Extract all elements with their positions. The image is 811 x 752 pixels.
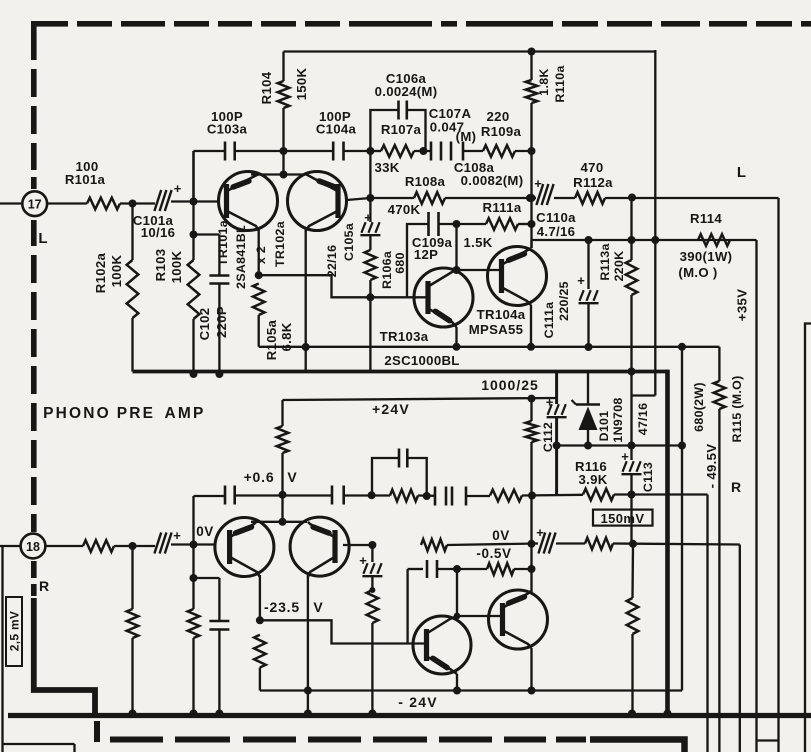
svg-text:2,5 mV: 2,5 mV	[8, 611, 22, 652]
svg-text:R103: R103	[153, 249, 168, 282]
resistor R102b	[127, 609, 139, 638]
junction R110a row198	[528, 194, 536, 202]
junction emitters2	[279, 518, 287, 526]
resistor R114	[698, 234, 730, 246]
svg-text:+: +	[174, 181, 182, 196]
wire output L down	[777, 198, 779, 752]
junction bus Q6	[304, 710, 312, 718]
wire C103a to R104	[235, 150, 284, 152]
junction bus C102b	[215, 710, 223, 718]
junction bus R102b	[129, 710, 137, 718]
junction row151 left	[366, 147, 374, 155]
svg-text:R104: R104	[259, 71, 274, 104]
wire R115 top	[718, 347, 720, 381]
wire C102b bottom	[218, 630, 220, 716]
junction TR102a collector rail	[302, 343, 310, 351]
junction -0.5 col457	[453, 565, 461, 573]
svg-text:TR102a: TR102a	[273, 221, 287, 267]
resistor R112b	[585, 538, 613, 550]
wire R110a bottom	[530, 103, 532, 248]
junction rail347 right	[678, 343, 686, 351]
svg-text:+: +	[534, 176, 542, 191]
wire 0V row a	[447, 544, 538, 546]
capacitor C104a	[332, 142, 335, 161]
svg-text:- 49.5V: - 49.5V	[704, 444, 719, 489]
dashed border left	[31, 21, 37, 60]
wire fb row d	[466, 495, 490, 497]
svg-text:+: +	[577, 273, 585, 288]
svg-text:680(2W): 680(2W)	[692, 382, 706, 432]
svg-text:C112: C112	[541, 422, 555, 452]
svg-text:TR103a: TR103a	[380, 329, 429, 344]
wire 632 down	[631, 544, 634, 598]
wire C102 bottom	[218, 284, 220, 375]
transistor Q5	[215, 518, 274, 577]
wire R101a to C101a	[120, 202, 155, 204]
wire rail347	[259, 346, 682, 348]
wire col457 segment	[456, 569, 458, 616]
wire emitter rail	[251, 173, 307, 175]
capacitor C110a (electrolytic)	[536, 184, 543, 205]
capacitor C102b	[209, 620, 229, 623]
wire R113a bottom	[630, 295, 632, 446]
wire R110b	[530, 399, 532, 421]
svg-text:C103a: C103a	[207, 122, 248, 137]
capacitor C105a (electrolytic)	[360, 234, 380, 236]
wire R102a bottom	[131, 318, 133, 372]
wire +24 corner	[281, 400, 283, 426]
wire R106b bottom	[371, 577, 373, 590]
svg-text:C105a: C105a	[342, 223, 356, 261]
junction bus 632	[628, 710, 636, 718]
junction rail C102	[215, 370, 223, 378]
wire C102 branch	[194, 233, 220, 235]
wire bottom jog	[757, 739, 779, 741]
resistor R109a	[483, 145, 515, 157]
svg-text:150mV: 150mV	[601, 511, 645, 526]
svg-text:680: 680	[393, 252, 407, 274]
junction fb col532	[528, 492, 536, 500]
svg-text:+0.6: +0.6	[244, 469, 275, 485]
wire fb row e	[522, 494, 583, 497]
svg-text:TR104a: TR104a	[477, 307, 526, 322]
svg-text:47/16: 47/16	[636, 403, 650, 436]
junction Q6 collector -24	[304, 687, 312, 695]
junction C111a top	[585, 236, 593, 244]
wire C108a to R109a	[463, 150, 483, 152]
wire R108a to C110a	[445, 197, 536, 199]
wire R115 down -49.5V	[718, 409, 720, 752]
junction emitter rail	[280, 171, 288, 179]
svg-text:390(1W): 390(1W)	[680, 249, 733, 264]
svg-text:- 24V: - 24V	[398, 694, 437, 710]
capacitor C fb2	[331, 486, 334, 505]
svg-text:R115 (M.O): R115 (M.O)	[730, 375, 744, 442]
wire R104 top	[282, 52, 284, 82]
svg-text:0.0082(M): 0.0082(M)	[461, 173, 524, 188]
wire R107a to C107A	[414, 150, 431, 152]
label 2.5mV box	[6, 597, 22, 666]
wire TR104a collector	[530, 305, 532, 347]
junction bus col372	[368, 710, 376, 718]
svg-text:150K: 150K	[294, 67, 309, 100]
svg-text:L: L	[737, 164, 746, 181]
junction TR103a collector top	[453, 220, 461, 228]
svg-text:D101: D101	[597, 411, 611, 442]
node 18 input R	[21, 534, 46, 559]
junction TR104a base node	[453, 266, 461, 274]
junction R108a row left	[366, 194, 374, 202]
wire R113a top	[630, 198, 632, 261]
svg-text:R107a: R107a	[381, 122, 422, 137]
svg-text:470: 470	[581, 160, 604, 175]
resistor R105b	[254, 635, 266, 668]
resistor R108b	[421, 539, 447, 551]
svg-text:R: R	[39, 578, 49, 594]
wire TR101a collector	[258, 229, 260, 275]
svg-text:220: 220	[487, 109, 510, 124]
wire node18 to R101b	[45, 545, 83, 547]
svg-text:C102: C102	[197, 308, 212, 341]
svg-text:C111a: C111a	[542, 302, 556, 339]
svg-text:V: V	[313, 599, 323, 615]
wire fb row c	[418, 494, 435, 497]
junction diode row C113	[628, 442, 636, 450]
junction TR104a collector	[527, 343, 535, 351]
transistor Q6	[290, 517, 349, 576]
junction staircase R106a	[366, 293, 374, 301]
wire node column	[369, 151, 371, 222]
wire Q7 emitter	[456, 674, 458, 691]
resistor R113a	[626, 260, 638, 295]
wire col372 down	[371, 545, 373, 562]
wire staircase bottom	[260, 620, 428, 643]
wire col407 down	[406, 569, 408, 644]
svg-text:R102a: R102a	[93, 252, 108, 293]
wire R103b column	[192, 496, 194, 609]
resistor R104b	[277, 426, 289, 453]
wire base to C103a row	[192, 151, 194, 203]
svg-text:22/16: 22/16	[325, 245, 339, 278]
resistor R112a	[575, 192, 605, 204]
capacitor C101b (electrolytic)	[154, 533, 161, 554]
wire TR104a base	[457, 269, 502, 271]
wire Q6 base right	[343, 544, 373, 546]
wire right frame corner	[805, 324, 811, 752]
wire -0.5 row	[437, 568, 487, 570]
junction C113 R116	[628, 491, 636, 499]
wire input L left	[0, 202, 22, 204]
wire shield left edge	[1, 546, 3, 752]
transistor Q8	[489, 590, 548, 649]
capacitor C107A	[430, 142, 433, 161]
svg-text:AMP: AMP	[164, 405, 205, 422]
wire C101b to base	[171, 543, 215, 545]
junction Q8 base	[454, 613, 461, 620]
junction plus35 row240	[651, 236, 659, 244]
resistor R111b	[487, 563, 514, 575]
svg-text:0V: 0V	[196, 524, 214, 539]
resistor R115	[714, 381, 726, 409]
svg-text:12P: 12P	[414, 247, 438, 262]
wire TR103a collector	[455, 224, 457, 270]
svg-text:C104a: C104a	[316, 122, 357, 137]
svg-text:+: +	[621, 449, 629, 464]
capacitor C108a	[450, 142, 453, 161]
junction 0V col532	[528, 540, 536, 548]
svg-text:MPSA55: MPSA55	[469, 322, 524, 337]
wire +35 column	[654, 50, 656, 396]
wire fb2 right	[407, 458, 426, 496]
svg-text:2SC1000BL: 2SC1000BL	[384, 353, 459, 368]
shield path thick corner bottom-left	[34, 598, 95, 716]
wire C111a bottom	[587, 304, 589, 347]
wire node17 to R101a	[47, 202, 87, 204]
svg-text:R106a: R106a	[380, 251, 394, 289]
svg-text:1.5K: 1.5K	[463, 235, 492, 250]
transistor TR101a	[219, 172, 278, 231]
junction C112 row	[553, 442, 561, 450]
capacitor C112 (electrolytic)	[547, 416, 567, 418]
svg-text:2SA841BL: 2SA841BL	[234, 225, 248, 289]
transistor TR104a	[488, 247, 547, 306]
wire R102b top	[131, 546, 133, 609]
resistor R106a	[365, 250, 377, 280]
wire C112 bottom	[555, 417, 558, 495]
wire feedback staircase top	[259, 275, 429, 297]
svg-text:10/16: 10/16	[141, 225, 176, 240]
resistor R fb2	[490, 490, 522, 502]
wire R103 top	[192, 151, 194, 260]
wire to C104a	[284, 150, 334, 152]
junction bus R103b	[190, 710, 198, 718]
wire R105a bottom	[258, 315, 260, 347]
capacitor C105b (electrolytic)	[362, 575, 382, 577]
wire R111a right	[518, 223, 532, 225]
junction base node R	[190, 541, 198, 549]
junction bus thick	[664, 710, 672, 718]
wire thick rail down	[665, 370, 670, 716]
capacitor C101a (electrolytic)	[154, 190, 161, 211]
svg-text:(M.O ): (M.O )	[678, 265, 717, 280]
wire +35 jog	[632, 394, 655, 396]
wire fb row f	[614, 493, 708, 495]
junction -0.5 col532	[528, 565, 536, 573]
wire TR104a emitter up	[530, 240, 532, 248]
resistor R103b	[188, 609, 200, 638]
wire thick rail	[133, 370, 669, 374]
svg-text:+: +	[536, 525, 544, 540]
wire TR102a collector	[305, 229, 307, 347]
resistor R116	[583, 489, 614, 501]
box 150mV	[593, 510, 653, 526]
junction R110a row224	[528, 220, 536, 228]
wire C106a right	[407, 110, 426, 151]
junction rail R103	[190, 370, 198, 378]
svg-text:100K: 100K	[109, 254, 124, 287]
wire fb corner down	[706, 495, 708, 752]
resistor R110a	[526, 80, 538, 103]
junction row151 right	[528, 147, 536, 155]
wire R104 bottom	[282, 108, 284, 175]
wire R102a top	[131, 204, 133, 261]
svg-text:R112a: R112a	[573, 175, 613, 190]
resistor R103	[188, 260, 200, 319]
svg-text:-23.5: -23.5	[264, 599, 300, 615]
svg-text:+24V: +24V	[372, 401, 410, 417]
junction fb col426	[423, 492, 431, 500]
junction fb col372	[368, 491, 376, 499]
junction C102b branch	[190, 574, 198, 582]
svg-text:0V: 0V	[492, 528, 510, 543]
wire C113 bottom	[630, 475, 632, 544]
transistor Q7	[413, 616, 471, 674]
transistor TR102a	[288, 172, 347, 231]
wire Q6 collector to bus	[307, 691, 309, 716]
resistor R105a	[253, 284, 265, 316]
svg-text:R113a: R113a	[598, 243, 612, 280]
wire row240	[532, 239, 757, 241]
capacitor C102	[209, 274, 229, 277]
wire C102b branch	[194, 577, 220, 579]
wire row151 to R107a	[370, 150, 381, 152]
capacitor C111a (electrolytic)	[579, 302, 599, 304]
wire rail347 to R115	[682, 346, 719, 348]
capacitor C fb3	[434, 487, 437, 506]
svg-text:100K: 100K	[169, 250, 184, 283]
svg-text:V: V	[287, 469, 297, 485]
wire C105a to R106a	[369, 236, 371, 250]
capacitor C109a	[427, 212, 430, 236]
svg-text:R101a: R101a	[65, 172, 106, 187]
wire R112a to corner	[605, 197, 779, 199]
resistor R106b	[367, 590, 379, 623]
svg-text:+35V: +35V	[735, 289, 750, 321]
capacitor C103a	[224, 142, 227, 161]
svg-text:220K: 220K	[612, 251, 626, 282]
junction rail c112r	[528, 395, 536, 403]
wire col532 mid	[530, 496, 532, 569]
wire 0V row c	[613, 544, 740, 545]
wire R106a bottom	[369, 280, 371, 372]
wire R103b bottom	[192, 638, 194, 716]
svg-text:R105a: R105a	[264, 319, 279, 360]
junction R106b top	[369, 587, 375, 593]
transistor TR103a	[414, 268, 473, 327]
svg-text:R108a: R108a	[405, 174, 446, 189]
junction 0V row left	[368, 541, 376, 549]
wire R110a top	[530, 52, 532, 81]
capacitor C106a	[397, 101, 400, 120]
wire TR102a base to node	[347, 198, 371, 200]
capacitor C110b (electrolytic)	[538, 533, 545, 554]
wire C112 top	[555, 372, 558, 404]
resistor R104	[278, 81, 290, 108]
wire -0.5 corner	[408, 568, 423, 570]
dashed border bottom corner	[94, 721, 100, 742]
wire R101b right	[114, 545, 155, 547]
wire fb2 row	[372, 458, 399, 495]
wire emitter rail2	[251, 521, 307, 523]
junction R110a top	[528, 48, 536, 56]
wire R108a left	[370, 197, 414, 199]
wire 0V row b	[556, 542, 585, 544]
svg-text:1000/25: 1000/25	[481, 377, 539, 393]
junction C111a rail	[585, 343, 593, 351]
capacitor C109b	[426, 560, 429, 578]
junction Q7 emitter	[453, 687, 461, 695]
wire C111a top	[587, 240, 589, 289]
wire -24 riser	[681, 347, 683, 691]
wire TR102a collector to rail	[305, 347, 307, 372]
junction fb R104b	[279, 491, 287, 499]
wire C109a to R111a	[439, 223, 487, 225]
junction C110a left	[526, 194, 534, 202]
svg-text:(M): (M)	[456, 129, 477, 144]
junction diode row D101	[584, 442, 592, 450]
wire -24V row	[260, 689, 682, 691]
wire +24V rail	[283, 398, 557, 400]
svg-text:TR101a: TR101a	[216, 220, 230, 266]
resistor R107a	[381, 145, 414, 157]
svg-text:220/25: 220/25	[557, 281, 571, 321]
junction 0V col632	[629, 540, 637, 548]
resistor R111a	[486, 218, 518, 230]
capacitor C fb4	[451, 487, 454, 506]
junction diode row right	[678, 442, 686, 450]
junction R107a right	[419, 147, 427, 155]
resistor R 150mV shunt	[627, 598, 639, 634]
svg-text:3.9K: 3.9K	[578, 472, 607, 487]
svg-text:-0.5V: -0.5V	[476, 546, 511, 561]
svg-text:C113: C113	[641, 462, 655, 492]
wire C110a to R112a	[554, 197, 575, 199]
svg-text:L: L	[38, 230, 47, 247]
wire -0.5 right	[514, 568, 532, 570]
resistor R fb	[390, 490, 418, 502]
wire C113 top	[630, 446, 632, 461]
junction base node L	[190, 198, 198, 206]
wire R104b bottom	[281, 453, 283, 522]
wire Q5 collector	[259, 575, 261, 620]
resistor R102a	[127, 260, 139, 318]
svg-text:18: 18	[26, 540, 40, 554]
svg-text:4.7/16: 4.7/16	[537, 224, 575, 239]
wire C104a to node	[344, 150, 371, 152]
svg-text:PRE: PRE	[117, 405, 155, 422]
wire Q6 collector	[307, 575, 309, 691]
svg-text:C110a: C110a	[536, 210, 576, 225]
svg-text:1N9708: 1N9708	[611, 397, 625, 442]
resistor R101b	[83, 540, 114, 552]
wire R114 down	[755, 240, 757, 752]
resistor R108a	[414, 192, 445, 204]
capacitor C113 (electrolytic)	[622, 473, 642, 475]
svg-text:R: R	[731, 479, 741, 495]
junction TR103a emitter	[453, 343, 461, 351]
svg-text:0.0024(M): 0.0024(M)	[375, 84, 438, 99]
wire Q8 collector	[530, 648, 532, 691]
wire fb row left	[194, 495, 226, 497]
junction R104 row151	[280, 147, 288, 155]
svg-text:R111a: R111a	[483, 200, 522, 215]
junction Q8 collector	[528, 687, 536, 695]
wire Q8 base row	[457, 615, 503, 617]
junction node R102a	[129, 200, 137, 208]
wire R102b bottom	[131, 638, 133, 716]
svg-text:1.8K: 1.8K	[537, 68, 551, 95]
capacitor C fb1	[224, 486, 227, 505]
